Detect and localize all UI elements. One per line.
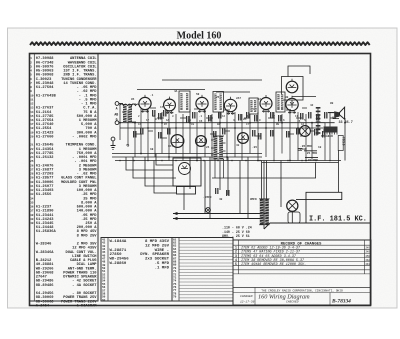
wire main buses <box>112 123 341 161</box>
wire B+ arrows <box>173 212 268 220</box>
drawing frame <box>30 54 371 306</box>
tone capacitor symbol <box>298 148 318 157</box>
wire short links <box>122 108 336 138</box>
tube V10 (AVC) <box>300 126 311 137</box>
sub-row labels <box>138 115 306 126</box>
IF transformer T1 1st IF <box>179 91 190 112</box>
condenser C2 tuning sec B <box>196 136 207 147</box>
tube V1 (58) <box>139 95 151 113</box>
IF transformer T2 2nd IF <box>213 92 224 113</box>
bus dots <box>119 160 331 162</box>
condenser C3 tuning sec C <box>238 133 249 144</box>
speaker SP1 <box>328 107 345 119</box>
tube V2 (57) <box>164 97 176 114</box>
power transformer winding hatch <box>260 201 269 222</box>
tube V6 (42) <box>286 96 298 114</box>
record of changes text <box>235 242 370 304</box>
tube V4 (2A7) <box>224 97 236 115</box>
parts list box <box>30 54 99 302</box>
oscillator coil L3 <box>211 136 226 178</box>
choke combs lower <box>215 188 230 196</box>
oscillator tube V8 in shield box <box>173 158 201 194</box>
shield box around V7 <box>282 77 304 104</box>
title Model 160 <box>177 31 222 42</box>
ruled empty parts box 61-80 <box>172 238 233 302</box>
output transformer T5 <box>321 127 338 138</box>
parts list rows <box>30 57 97 308</box>
rectifier tube V9 (80) <box>287 200 298 211</box>
wire junctions <box>119 122 346 220</box>
tube pin dots <box>141 111 296 115</box>
wire grid-cap top lines <box>137 66 316 97</box>
capacitors row <box>133 110 328 140</box>
voltage notes <box>222 226 252 238</box>
IF transformer T4 output IF <box>276 92 285 112</box>
wire vertical drops <box>120 103 330 161</box>
condenser C1 tuning sec A <box>171 135 184 148</box>
ground terminal <box>111 137 116 149</box>
terminal G <box>115 121 119 125</box>
rectifier label box <box>288 212 300 223</box>
wire lower verticals <box>184 157 292 229</box>
IF transformer T3 3rd IF <box>249 98 258 114</box>
parts box items 41-60 <box>101 238 172 302</box>
tube V7 (6F7) <box>286 79 298 93</box>
pilot lamp P1 <box>206 208 211 213</box>
wire tone branch <box>212 163 316 179</box>
resistor chain comb <box>316 107 321 134</box>
field coil box <box>338 136 344 151</box>
tube V3 (58) <box>196 95 208 113</box>
record of changes table <box>233 240 371 305</box>
wire right field branch <box>308 113 345 193</box>
zigzag rule <box>30 42 370 45</box>
scan noise overlay <box>0 0 1 1</box>
wire bottom right run <box>264 192 370 229</box>
antenna coil L1 <box>120 104 140 122</box>
power transformer T6 <box>259 199 270 225</box>
misc small labels <box>126 90 334 201</box>
tube V5 (2B7) <box>260 95 272 113</box>
parts box A entries <box>110 240 170 270</box>
terminal labels <box>114 107 118 122</box>
wire lower-left L runs <box>126 154 176 194</box>
terminal A <box>115 102 123 106</box>
tone capacitor labels <box>300 145 318 162</box>
